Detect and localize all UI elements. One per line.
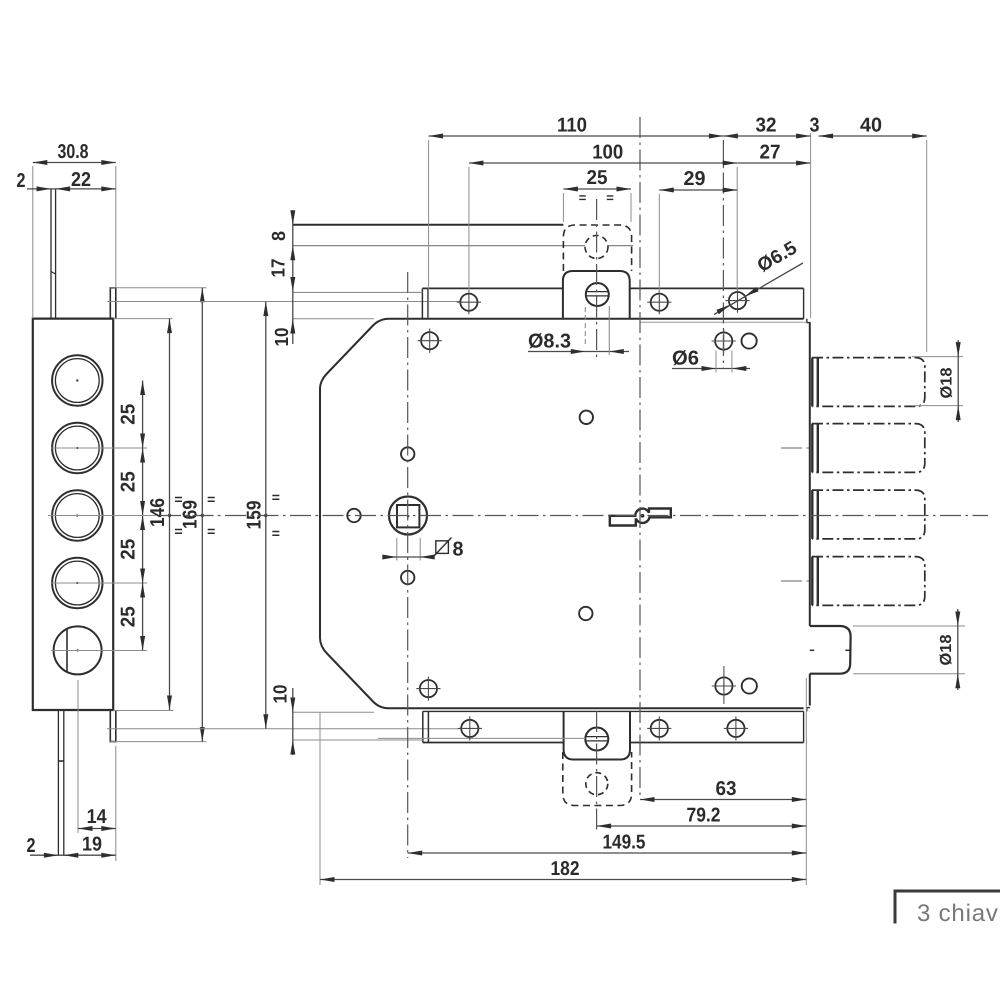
svg-text:29: 29	[684, 168, 706, 190]
svg-text:146: 146	[147, 498, 169, 527]
svg-text:Ø8.3: Ø8.3	[528, 331, 571, 353]
svg-text:32: 32	[756, 115, 777, 137]
svg-text:3 chiavi: 3 chiavi	[917, 900, 1000, 927]
svg-text:2: 2	[27, 835, 36, 857]
svg-text:110: 110	[557, 115, 587, 137]
svg-text:Ø6: Ø6	[672, 348, 699, 370]
svg-text:182: 182	[551, 858, 580, 880]
svg-text:17: 17	[269, 259, 290, 278]
svg-text:30.8: 30.8	[58, 141, 89, 163]
svg-text:149.5: 149.5	[603, 832, 646, 854]
svg-text:10: 10	[271, 685, 292, 704]
svg-text:2: 2	[17, 170, 26, 192]
svg-text:100: 100	[592, 142, 623, 164]
svg-text:=: =	[579, 190, 587, 205]
svg-text:10: 10	[272, 328, 293, 347]
svg-text:=: =	[606, 190, 614, 205]
svg-text:27: 27	[760, 142, 781, 164]
svg-text:=: =	[272, 489, 280, 505]
svg-text:25: 25	[118, 606, 140, 627]
svg-text:3: 3	[810, 115, 820, 137]
svg-text:169: 169	[180, 500, 202, 529]
svg-text:79.2: 79.2	[687, 805, 721, 827]
svg-text:25: 25	[587, 167, 608, 189]
svg-text:25: 25	[118, 539, 140, 560]
svg-text:8: 8	[453, 539, 464, 561]
svg-text:19: 19	[82, 834, 102, 856]
svg-text:14: 14	[87, 806, 108, 828]
svg-text:25: 25	[118, 404, 140, 425]
svg-text:Ø18: Ø18	[938, 634, 955, 665]
svg-text:40: 40	[860, 115, 882, 137]
svg-text:8: 8	[269, 231, 290, 241]
svg-text:=: =	[207, 491, 215, 507]
svg-text:63: 63	[716, 778, 737, 800]
svg-text:=: =	[207, 523, 215, 539]
svg-text:Ø18: Ø18	[939, 367, 956, 398]
svg-text:25: 25	[118, 471, 140, 492]
svg-text:22: 22	[71, 169, 91, 191]
svg-text:=: =	[272, 525, 280, 541]
